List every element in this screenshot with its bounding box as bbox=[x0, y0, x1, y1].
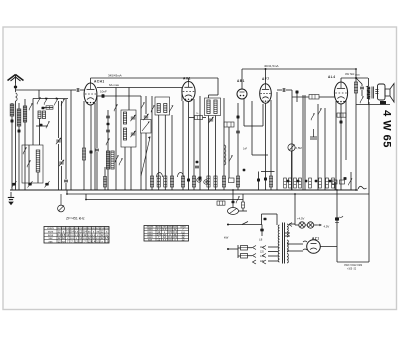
switch contact S1h bbox=[27, 160, 30, 167]
wire bbox=[244, 125, 252, 127]
svg-text:ZF=451 kHz: ZF=451 kHz bbox=[66, 217, 85, 221]
wire bbox=[335, 101, 337, 190]
switch contact bbox=[141, 102, 144, 109]
trimmer C t2 bbox=[59, 160, 64, 166]
fuse 1 bbox=[241, 246, 248, 251]
wire AB1 diode out bbox=[243, 99, 245, 126]
svg-text:12: 12 bbox=[58, 239, 61, 243]
wire bbox=[158, 115, 160, 190]
potentiometer (volume) under bus bbox=[58, 194, 65, 212]
antenna bbox=[8, 75, 24, 84]
resistor bbox=[294, 178, 297, 188]
resistor bbox=[319, 178, 322, 188]
capacitor C k1 bbox=[95, 149, 99, 151]
pilot lamp 1 bbox=[299, 222, 305, 228]
resistor bbox=[269, 176, 272, 187]
switch contact bbox=[106, 138, 109, 145]
tube AB1 bbox=[237, 89, 247, 99]
capacitor cathode bbox=[340, 121, 343, 124]
wire HT feed 345/43mA bbox=[91, 77, 219, 79]
switch contact tone bbox=[318, 108, 321, 115]
wire bbox=[242, 194, 244, 202]
socket 2 bbox=[204, 180, 208, 184]
wire bbox=[182, 101, 184, 190]
wire bbox=[262, 213, 278, 215]
capacitor blob bbox=[107, 123, 110, 126]
svg-text:xxx: xxx bbox=[148, 239, 153, 242]
junction bbox=[265, 68, 267, 70]
wire bbox=[238, 247, 241, 249]
capacitor C grid bbox=[77, 88, 79, 92]
svg-text:4 W 65: 4 W 65 bbox=[381, 110, 393, 148]
wire tap bbox=[285, 232, 290, 234]
wire 6A max bbox=[97, 87, 182, 89]
resistor R 2 bbox=[157, 176, 160, 187]
IF transformer 1 can bbox=[155, 97, 170, 115]
wire bbox=[124, 147, 126, 190]
wire bbox=[289, 223, 295, 225]
wire bbox=[145, 133, 147, 190]
wire bbox=[296, 92, 298, 102]
junction bbox=[66, 193, 68, 195]
label ACH1 bbox=[94, 79, 105, 83]
wire bbox=[287, 243, 303, 245]
wire anode to output transformer bbox=[341, 77, 368, 79]
winding primary bbox=[278, 225, 279, 262]
coil IF2b bbox=[214, 100, 217, 114]
wire bbox=[38, 90, 40, 98]
label OWX bbox=[344, 265, 363, 267]
wire bbox=[97, 95, 141, 97]
wire speaker return bbox=[356, 104, 390, 106]
switch contact S1c bbox=[44, 98, 47, 105]
junction bbox=[56, 98, 58, 100]
svg-text:AZ1: AZ1 bbox=[312, 237, 320, 241]
switch contact S1g bbox=[46, 121, 49, 128]
junction bbox=[355, 189, 357, 191]
wire bbox=[304, 95, 306, 190]
capacitor blob bbox=[90, 151, 93, 154]
wire bbox=[66, 190, 68, 194]
switch contact bbox=[114, 104, 117, 111]
wire bbox=[314, 224, 317, 226]
label +4,5V bbox=[297, 217, 305, 221]
pickup jack bbox=[228, 208, 239, 215]
wire bbox=[61, 101, 63, 160]
coil IF1b bbox=[164, 104, 167, 113]
coil L osc 3 bbox=[111, 151, 114, 169]
wire bbox=[262, 104, 264, 126]
wire bbox=[61, 166, 63, 190]
winding secondary HT bbox=[287, 224, 288, 237]
label 0,5M bbox=[296, 146, 303, 150]
wire bbox=[151, 96, 153, 190]
resistor pickup bbox=[217, 201, 225, 205]
svg-text:4,5V: 4,5V bbox=[324, 225, 330, 229]
junction bbox=[227, 224, 229, 226]
wire bbox=[336, 190, 338, 262]
wire bbox=[18, 103, 20, 190]
capacitor electrolytic mark bbox=[335, 216, 343, 223]
wire bbox=[286, 89, 292, 91]
wire bbox=[276, 214, 278, 225]
svg-text:12: 12 bbox=[182, 238, 185, 242]
wire bbox=[83, 101, 85, 190]
wire bbox=[356, 78, 362, 84]
wire bbox=[115, 88, 117, 191]
component box bbox=[229, 178, 235, 183]
wire bbox=[36, 125, 48, 127]
resistor bbox=[104, 177, 107, 188]
wire HT out bbox=[320, 246, 337, 248]
svg-text:12: 12 bbox=[157, 238, 160, 242]
wire bbox=[217, 78, 219, 95]
trimmer C p2 bbox=[28, 183, 31, 186]
wire bbox=[130, 147, 132, 190]
wire bbox=[302, 95, 304, 190]
wire bbox=[188, 102, 190, 191]
capacitor bbox=[195, 166, 199, 168]
resistor bbox=[332, 178, 335, 188]
capacitor mains bbox=[260, 229, 263, 232]
resistor R 1 bbox=[150, 176, 153, 187]
label 7k bbox=[196, 113, 199, 115]
wire bbox=[181, 88, 183, 102]
wire bbox=[193, 99, 195, 190]
svg-text:+105 -22: +105 -22 bbox=[347, 268, 357, 270]
svg-text:40/41,5mA: 40/41,5mA bbox=[264, 64, 279, 68]
switch contact S1d bbox=[55, 98, 58, 105]
wire bbox=[43, 107, 53, 109]
label kW bbox=[224, 236, 229, 240]
capacitor blob bbox=[315, 180, 318, 183]
wire bbox=[291, 151, 293, 190]
svg-text:0,5M: 0,5M bbox=[296, 146, 303, 150]
coil can (oscillator) bbox=[22, 145, 43, 183]
resistor R s2 bbox=[192, 176, 195, 187]
junction bbox=[85, 199, 87, 201]
coil IF2a bbox=[207, 100, 210, 114]
coil (horizontal) bbox=[46, 106, 53, 109]
capacitor ant coupling bbox=[14, 86, 17, 88]
junction bbox=[355, 77, 357, 79]
hairpin loop bbox=[157, 173, 163, 178]
wire bbox=[295, 224, 299, 226]
switch contact S1b bbox=[37, 97, 40, 104]
svg-text:ACH1: ACH1 bbox=[94, 79, 105, 83]
svg-text:4W 7kΩ: 4W 7kΩ bbox=[345, 72, 354, 76]
junction bbox=[336, 189, 338, 191]
svg-text:kW: kW bbox=[224, 236, 229, 240]
wire bbox=[96, 152, 98, 190]
wire bbox=[208, 116, 210, 191]
wire bbox=[317, 104, 319, 190]
wire bbox=[32, 99, 34, 146]
wire bbox=[232, 190, 234, 208]
resistor bbox=[289, 178, 292, 188]
capacitor blob bbox=[40, 124, 43, 127]
switch contact tone bbox=[360, 96, 363, 103]
wire bbox=[361, 84, 363, 86]
svg-text:12: 12 bbox=[79, 239, 82, 243]
resistor screen feed bbox=[195, 116, 203, 120]
capacitor blob bbox=[287, 180, 290, 183]
label tap bbox=[260, 261, 265, 263]
wire bbox=[248, 255, 253, 257]
curl (field coil) bbox=[358, 186, 367, 189]
svg-text:12: 12 bbox=[75, 239, 78, 243]
label AF7 bbox=[262, 77, 270, 81]
wire bbox=[368, 99, 370, 105]
wire antenna column bbox=[15, 101, 17, 190]
capacitor blob bbox=[264, 218, 267, 220]
wire bbox=[265, 69, 267, 84]
switch contact S1e bbox=[61, 99, 64, 106]
wire bbox=[199, 96, 201, 190]
trimmer C p3 bbox=[45, 183, 48, 186]
gang coupling arrow bbox=[141, 137, 150, 177]
fuse 2 bbox=[241, 254, 248, 259]
capacitor blob bbox=[42, 107, 45, 110]
trimmer C p2 arrow bbox=[28, 181, 33, 187]
wire bbox=[251, 101, 253, 155]
capacitor blob bbox=[232, 201, 235, 204]
tube AH1 bbox=[182, 82, 195, 102]
wire band bus bbox=[33, 98, 68, 100]
svg-text:4600: 4600 bbox=[355, 75, 361, 77]
switch contact tone 2 bbox=[311, 113, 314, 120]
resistor bbox=[207, 176, 210, 187]
wire bbox=[270, 100, 272, 190]
wire bbox=[265, 103, 267, 190]
trimmer IF1 left bbox=[151, 105, 154, 112]
component box bbox=[340, 180, 345, 184]
heater hook 1 bbox=[303, 241, 307, 242]
switch contact pickup bbox=[236, 196, 239, 203]
switch contact bbox=[119, 158, 122, 165]
component box bbox=[332, 180, 337, 184]
wire bbox=[261, 171, 275, 173]
plug contact bbox=[289, 223, 292, 227]
label L8 bbox=[259, 238, 263, 242]
wire tap bbox=[268, 255, 278, 257]
plug contact bbox=[253, 254, 257, 258]
socket 1 bbox=[197, 178, 201, 182]
wire bbox=[345, 100, 347, 160]
capacitor blob bbox=[264, 178, 267, 181]
wire bbox=[37, 172, 39, 183]
plug contact bbox=[253, 260, 257, 264]
label AL4 bbox=[328, 75, 336, 79]
capacitor blob bbox=[187, 179, 190, 182]
coil can (RF) bbox=[121, 110, 136, 147]
pilot lamp 2 bbox=[307, 222, 313, 228]
trimmer bbox=[130, 115, 135, 121]
wire bbox=[277, 89, 282, 91]
wire bbox=[368, 78, 370, 86]
coil L8 bbox=[123, 128, 126, 140]
wire bbox=[188, 78, 190, 82]
wire HT feed 40/41,5mA bbox=[242, 68, 356, 70]
wire tap bbox=[268, 260, 278, 262]
tube AL4 output bbox=[334, 82, 347, 104]
wire bbox=[209, 94, 219, 96]
wire bbox=[11, 103, 13, 190]
label 4 W 65 model bbox=[381, 110, 393, 148]
trimmer C p3 arrow bbox=[45, 181, 50, 187]
coil L6 bbox=[36, 150, 40, 172]
winding output transformer primary bbox=[367, 86, 370, 99]
capacitor blob bbox=[237, 116, 240, 119]
svg-text:345/43mA: 345/43mA bbox=[108, 74, 122, 78]
label 40/41,5mA bbox=[264, 64, 279, 68]
wire bbox=[85, 194, 87, 200]
wire bbox=[171, 115, 173, 190]
coil L7 bbox=[123, 112, 126, 124]
resistor bbox=[236, 176, 239, 187]
capacitor tone bbox=[360, 87, 364, 89]
wire bbox=[94, 103, 96, 190]
wire bbox=[140, 96, 142, 119]
wire bbox=[237, 245, 239, 258]
wire bbox=[305, 224, 307, 226]
wire bbox=[228, 248, 238, 250]
label 1nF bbox=[243, 148, 248, 151]
wire AVC bus bbox=[86, 199, 243, 201]
winding secondary heater 2 bbox=[287, 254, 288, 264]
plug contact bbox=[263, 260, 267, 264]
capacitor blob bbox=[199, 177, 202, 180]
coil L osc 2 bbox=[106, 151, 109, 169]
heater hook 2 bbox=[303, 249, 307, 250]
wire bbox=[291, 90, 293, 190]
label AZ1 bbox=[312, 237, 320, 241]
wire bbox=[350, 172, 352, 190]
label ZF=451 kHz bbox=[66, 217, 85, 221]
wire bbox=[24, 99, 26, 190]
wire bbox=[242, 208, 244, 211]
capacitor blob bbox=[329, 180, 332, 183]
resistor cathode AL4 bbox=[337, 113, 346, 117]
switch contact bbox=[349, 178, 352, 185]
plug contact bbox=[253, 246, 257, 250]
variable capacitor C v1 bbox=[143, 114, 148, 120]
variable capacitor box bbox=[141, 120, 152, 134]
resistor bbox=[222, 176, 225, 187]
coil L3 bbox=[17, 109, 21, 126]
coil L2 bbox=[10, 104, 14, 116]
wire bbox=[65, 183, 67, 190]
svg-text:AL4: AL4 bbox=[328, 75, 336, 79]
wire bbox=[15, 83, 17, 92]
resistor bbox=[326, 178, 329, 188]
capacitor blob bbox=[257, 179, 260, 182]
label 6A max bbox=[109, 83, 120, 87]
table (coil data right) bbox=[144, 226, 189, 242]
capacitor blob bbox=[305, 180, 308, 183]
capacitor blob bbox=[297, 180, 300, 183]
wire bbox=[340, 104, 342, 190]
wire bbox=[248, 247, 253, 249]
resistor box 0,1 bbox=[224, 122, 234, 127]
junction bbox=[45, 98, 47, 100]
svg-text:OWX 72222 OM2: OWX 72222 OM2 bbox=[344, 265, 363, 267]
coil L5b bbox=[43, 111, 46, 119]
coil HF choke bbox=[224, 145, 226, 165]
wire bbox=[128, 88, 130, 111]
wire bbox=[252, 154, 268, 156]
label +105 bbox=[347, 268, 357, 270]
capacitor 10nF bbox=[102, 94, 105, 97]
wire bbox=[70, 90, 72, 190]
wire bbox=[239, 210, 248, 212]
wire bbox=[261, 225, 263, 237]
label tap bbox=[260, 256, 265, 258]
resistor bbox=[299, 178, 302, 188]
wire AB1 anode bbox=[241, 69, 243, 89]
wire bbox=[58, 101, 60, 138]
junction bbox=[227, 248, 229, 250]
resistor R 4 bbox=[170, 176, 173, 187]
junction bbox=[294, 193, 296, 195]
switch contact S1a bbox=[23, 147, 26, 154]
trimmer C p1 arrow bbox=[12, 181, 17, 187]
svg-text:L8: L8 bbox=[259, 238, 263, 242]
switch contact bbox=[229, 155, 232, 162]
wire anode cap bbox=[90, 78, 92, 83]
tube ACH1 bbox=[84, 83, 97, 105]
trimmer bbox=[130, 131, 135, 137]
wire bbox=[258, 172, 260, 191]
coil IF1a bbox=[157, 104, 160, 113]
wire bbox=[203, 117, 207, 119]
capacitor electrolytic bbox=[335, 217, 339, 220]
output transformer core bbox=[372, 87, 374, 99]
resistor R 3 bbox=[164, 176, 167, 187]
winding secondary heater 1 bbox=[287, 240, 288, 252]
capacitor blob bbox=[296, 91, 299, 94]
wire bbox=[261, 214, 263, 225]
table (coil data left) bbox=[44, 227, 110, 244]
trimmer C t1 bbox=[56, 138, 61, 144]
switch contact bbox=[115, 155, 118, 162]
ground bbox=[8, 192, 14, 205]
svg-text:3,5: 3,5 bbox=[105, 239, 109, 243]
hairpin loop bbox=[178, 173, 184, 178]
wire bbox=[361, 90, 363, 96]
label 345/43mA bbox=[108, 74, 122, 78]
tube AZ1 rectifier bbox=[307, 240, 321, 254]
capacitor blob bbox=[243, 169, 246, 172]
capacitor blob bbox=[196, 161, 199, 163]
wire bbox=[215, 116, 217, 191]
trimmer IF2 bbox=[208, 117, 213, 123]
resistor tone bbox=[354, 82, 357, 93]
svg-text:6A max: 6A max bbox=[109, 83, 120, 87]
wire mains switch line bbox=[227, 224, 262, 226]
wire bbox=[104, 167, 106, 190]
trimmer IF1 right bbox=[170, 105, 173, 112]
wire bbox=[96, 96, 98, 148]
capacitor C pad2 bbox=[106, 130, 110, 132]
wire bbox=[65, 99, 67, 179]
wire tap bbox=[268, 251, 278, 253]
svg-text:AH1: AH1 bbox=[183, 77, 191, 81]
svg-text:1nF: 1nF bbox=[243, 148, 248, 151]
wire bbox=[90, 105, 92, 190]
resistor bbox=[242, 202, 245, 208]
wire bbox=[71, 89, 76, 91]
